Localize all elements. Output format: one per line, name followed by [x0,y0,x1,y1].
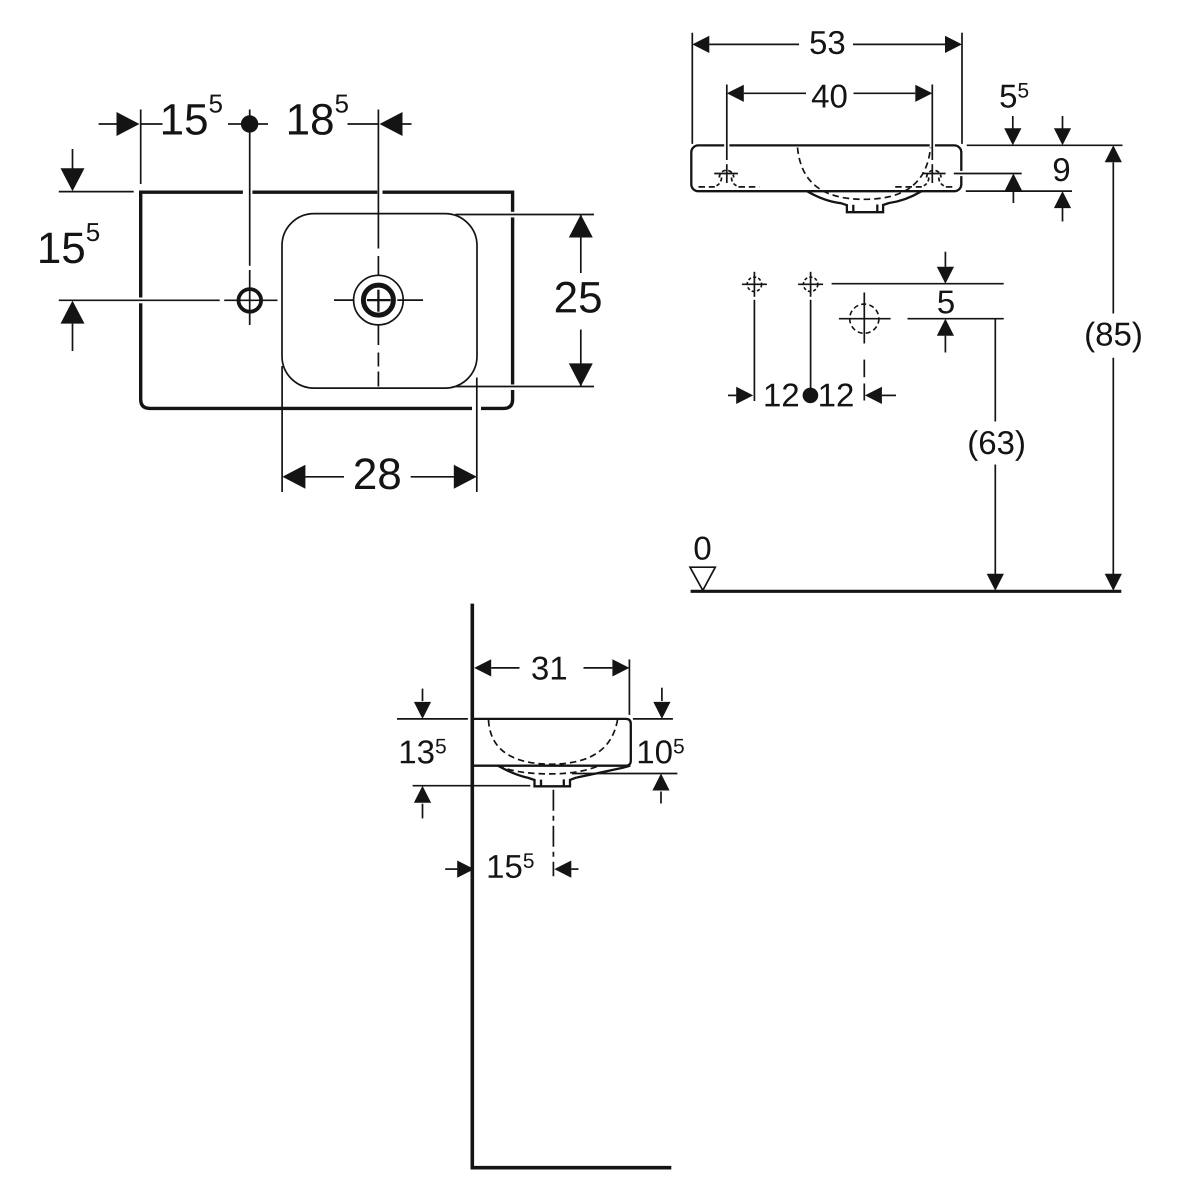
side dim 13.5: bottom reference line [413,785,531,787]
plan dim 28: right extension line [476,378,478,493]
side view: basin body outline [472,719,631,766]
side dim 13.5: down arrow [422,689,424,702]
plan dim 28: left extension line [281,366,283,492]
side dim 15.5: left arrow at wall [445,868,457,870]
front: drain hole crosshair [839,293,891,344]
front view: right shelf dashed line [895,186,952,188]
front dim 9: up arrow [1054,191,1071,208]
side view: bowl underside right [576,766,630,778]
front dim (63): dimension line with down arrow [994,319,996,422]
front: drain hole dashed circle [850,304,879,333]
front view: right tap dashed dome [927,170,941,177]
front dim 9: down arrow [1062,116,1064,129]
front: zero level label [695,537,711,560]
front dim 53: dimension line with arrows [709,43,799,45]
front view: drain trap inner lips [852,205,854,212]
side view: dashed bowl bottom inner [498,765,600,774]
side label 31 [532,656,566,679]
plan dim 15.5 vertical: up arrow [61,301,85,324]
side dim 10.5: bottom reference line [572,773,677,775]
front: floor line [691,590,1122,593]
front: drain centerline [863,360,865,378]
front view: dashed bowl inner outline [798,148,931,200]
plan: main tap centerline [377,110,379,249]
plan dim 15.5 vertical: down arrow [72,149,74,169]
plan view: washbasin outer rim [141,192,513,408]
front dim 5: reference line upper [832,283,1004,285]
side: drain centerline dashed [552,790,554,877]
plan dim 25: top extension line [455,214,594,216]
side label 10.5 [639,739,684,764]
plan dim 15.5/18.5 dimension line y=124 [141,123,379,125]
plan dim 15.5 vertical: bottom reference line [59,299,220,301]
front label 9 [1054,158,1069,181]
side view: trap inner lips [540,780,542,787]
front label 40 [812,84,847,107]
side dim 31: right extension line [628,659,630,715]
side view: wall line [470,604,474,1170]
side dim 13.5: top reference line [397,718,468,720]
plan view: left tap hole crosshair [224,270,277,325]
side dim 10.5: down arrow [661,688,663,701]
plan view: basin bowl rounded square [282,214,477,389]
plan: left tap centerline [249,110,251,266]
front view: left shelf dashed line [699,186,760,188]
front view: right tap dashed flares [924,178,929,186]
front dim 53: right extension line [961,33,963,144]
front view: left tap dashed flares [717,178,722,186]
front dim 40: left extension line into body [726,85,728,161]
plan dim 15.5 horizontal: extension line [140,110,142,185]
front dim 5.5: up arrow [1005,174,1022,191]
front view: solid bowl underside with drain trap [807,191,921,212]
front dim 5: down arrow [944,252,946,267]
plan label 25 [556,282,601,313]
side label 13.5 [401,739,446,764]
front dim 5: up arrow [937,319,954,336]
front: top edge reference line [967,144,1123,146]
side view: top edge reference extension [633,718,673,720]
plan dim 25: dimension line with arrows [580,215,582,274]
front label 53 [810,31,844,54]
plan label 15.5 (top) [163,95,222,135]
front dim 40: dimension line with arrows [744,92,806,94]
plan dim 25: bottom extension line [456,386,595,388]
plan dim 28: dimension line with arrows [305,476,344,478]
plan label 18.5 (top) [289,95,348,135]
front dim 53: left extension line [691,33,693,144]
front label (85) [1086,322,1141,353]
front view: right tap crosshair [922,173,946,175]
front dim 5: reference line lower [908,318,1004,320]
front: fixing hole centerline right [810,300,812,401]
side view: floor line [471,1166,672,1170]
front label 5 [938,291,954,314]
plan label 28 [355,458,400,489]
front view: left tap dashed dome [719,170,733,177]
front label 5.5 [1000,83,1028,108]
front label (63) [969,430,1024,461]
plan view: main tap hole bold circle [363,285,393,315]
front: fixing hole cross left [742,272,767,297]
front view: left tap crosshair [714,173,738,175]
front dim 12-12: dimension line [728,394,736,396]
side view: dashed bowl inner profile [489,720,618,764]
side dim 15.5: right arrow at drain centerline [554,861,571,878]
front dim 40: right extension line into body [931,85,933,161]
plan dim: outside arrow pointing left at x=378.4 [402,123,412,125]
front dim 5.5: down arrow [1012,116,1014,129]
plan view: gaps in outer rim where centerlines cross [141,192,513,408]
front dim 12-12: shared point dot [803,388,819,404]
plan label 15.5 (left) [40,223,99,263]
front view: gaps in body outline [724,145,961,176]
front: zero level triangle marker [690,567,715,590]
plan view: main tap hole outer circle [354,275,404,325]
front label 12 (right) [820,383,853,406]
front: fixing hole cross right [798,272,823,297]
front label 12 (left) [765,383,798,406]
front: bottom edge reference line [966,190,1072,192]
side view: solid bowl underside with trap [498,766,576,787]
side label 15.5 [489,853,534,878]
side dim 31: dimension line with arrows [474,659,491,676]
front: tap height reference line [954,173,1022,175]
plan view: main tap hole crosshair [334,256,423,387]
front dim (85): dimension line with arrows [1105,145,1122,162]
plan view: left tap hole circle [239,289,262,312]
side dim 10.5: up arrow [652,774,669,791]
plan dim: shared point dot [241,115,258,132]
side dim 13.5: up arrow [414,786,431,803]
plan dim: outside arrow pointing right at x=140.7 [99,123,117,125]
front: fixing hole centerline left [753,300,755,401]
front view: basin body outline [691,145,961,191]
plan dim 15.5 vertical: top reference line [59,191,134,193]
